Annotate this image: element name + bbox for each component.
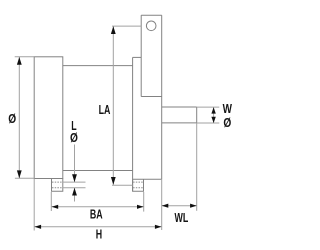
svg-text:WL: WL [175, 211, 189, 225]
svg-text:LA: LA [99, 103, 111, 117]
right stud [133, 179, 144, 191]
BA: left + right [52, 205, 59, 209]
svg-text:H: H [96, 228, 102, 242]
dimension / extension lines [15, 26, 220, 230]
motor body bottom [63, 170, 133, 172]
bracket right edge [161, 15, 163, 179]
left stud hidden hole bottom [52, 187, 63, 189]
motor body top [63, 65, 133, 67]
LA dim [112, 26, 114, 185]
end cap (left cylinder) [34, 57, 63, 179]
shaft end [196, 107, 198, 123]
WL dim [162, 205, 197, 207]
bracket bottom / stud top [133, 178, 162, 180]
LA: up + down [111, 26, 116, 34]
bracket top [141, 14, 162, 16]
right stud hidden hole bottom [133, 187, 143, 189]
dia dim line left [18, 57, 20, 178]
L: down-pointing above, up-pointing below [72, 174, 77, 182]
shaft bottom [162, 122, 197, 124]
H dim [35, 226, 162, 228]
step top [133, 56, 142, 58]
dia left: up + down [17, 57, 22, 65]
WL: left + right [162, 204, 169, 208]
arrowheads [17, 26, 216, 229]
H: left + right [35, 225, 42, 229]
BA dim [52, 206, 144, 208]
W: up + down [211, 107, 215, 113]
bracket hole [146, 21, 156, 31]
bracket left edge [140, 15, 142, 96]
bracket fold line [141, 96, 162, 98]
left stud [52, 179, 63, 192]
L / dia small dim [74, 145, 76, 183]
shaft top [162, 106, 197, 108]
body right vertical [132, 57, 134, 191]
svg-text:W: W [223, 103, 232, 117]
svg-text:BA: BA [90, 208, 103, 222]
svg-text:Ø: Ø [70, 131, 78, 145]
svg-text:Ø: Ø [223, 116, 231, 130]
hidden hole lines (dashed) [52, 182, 144, 188]
svg-text:Ø: Ø [8, 112, 16, 126]
right stud hidden hole top [133, 181, 143, 183]
left stud hidden hole top [52, 181, 63, 183]
W dim [213, 107, 215, 123]
